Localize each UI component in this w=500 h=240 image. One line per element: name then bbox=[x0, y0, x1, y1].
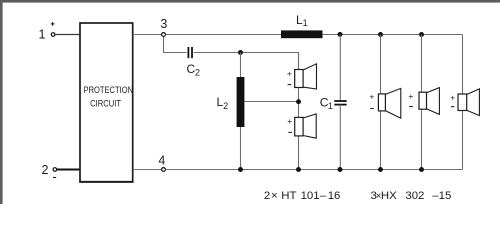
svg-text:PROTECTION: PROTECTION bbox=[84, 85, 134, 95]
junction node L2 top bbox=[238, 50, 243, 55]
svg-text:+: + bbox=[287, 116, 292, 126]
svg-text:+: + bbox=[287, 68, 292, 78]
svg-text:1: 1 bbox=[39, 28, 46, 42]
wire L2 column bbox=[240, 53, 242, 170]
svg-text:+: + bbox=[369, 92, 374, 102]
svg-text:+: + bbox=[408, 91, 413, 101]
svg-text:+: + bbox=[450, 92, 455, 102]
inductor L1 bbox=[281, 13, 323, 38]
svg-text:1: 1 bbox=[303, 18, 308, 28]
svg-text:3×HX302–15: 3×HX302–15 bbox=[371, 190, 452, 202]
woofer1 column wire bbox=[380, 35, 382, 170]
terminal 4 bbox=[158, 154, 165, 172]
svg-text:CIRCUIT: CIRCUIT bbox=[90, 98, 121, 108]
junction node C1 top bbox=[338, 32, 343, 37]
wire C2 to tweeter branch bbox=[194, 53, 299, 70]
wire terminal2 to protection box bbox=[57, 169, 80, 171]
tweeter LS2 bbox=[287, 114, 316, 138]
woofer2 column wire bbox=[421, 35, 423, 170]
junction node woofer1 top bbox=[378, 32, 383, 37]
wire node3 down to C2 branch bbox=[164, 37, 187, 53]
C1 column wire upper bbox=[339, 35, 341, 101]
right column wire bbox=[462, 35, 464, 170]
terminal 3 bbox=[160, 17, 167, 37]
svg-text:2: 2 bbox=[195, 68, 200, 78]
svg-text:4: 4 bbox=[158, 154, 165, 168]
svg-text:2: 2 bbox=[223, 101, 228, 111]
junction node woofer2 bottom bbox=[419, 167, 424, 172]
tweeter LS1 bbox=[287, 64, 317, 89]
inductor L2 bbox=[217, 77, 245, 127]
svg-text:1: 1 bbox=[328, 101, 333, 111]
svg-text:2: 2 bbox=[42, 163, 49, 177]
junction node tweeter midpoint bbox=[296, 99, 301, 104]
terminal 2 bbox=[42, 163, 57, 178]
capacitor C2 bbox=[187, 47, 201, 78]
bottom wire terminal 4 to right corner bbox=[166, 169, 463, 171]
capacitor C1 bbox=[320, 95, 347, 111]
woofer LS4 bbox=[408, 88, 439, 115]
junction node tweeter bottom bbox=[296, 167, 301, 172]
wire terminal1 to protection box bbox=[55, 34, 79, 36]
svg-text:2×HT101–16: 2×HT101–16 bbox=[264, 190, 340, 202]
protection circuit box U1 bbox=[79, 23, 133, 182]
woofer LS5 bbox=[450, 89, 479, 116]
svg-text:3: 3 bbox=[160, 17, 167, 31]
top wire node 3 to right corner bbox=[166, 34, 463, 36]
tweeter column wire bbox=[298, 53, 300, 170]
junction node L2 bottom bbox=[238, 167, 243, 172]
junction node woofer2 top bbox=[419, 32, 424, 37]
junction node C1 bottom bbox=[338, 167, 343, 172]
tap wire L2 to tweeter midpoint bbox=[244, 101, 298, 103]
wire box to terminal 4 bbox=[133, 169, 162, 171]
woofer LS3 bbox=[369, 88, 400, 118]
wire box to terminal 3 bbox=[133, 34, 162, 36]
junction node woofer1 bottom bbox=[378, 167, 383, 172]
C1 column wire lower bbox=[339, 105, 341, 170]
terminal 1 bbox=[39, 22, 55, 41]
